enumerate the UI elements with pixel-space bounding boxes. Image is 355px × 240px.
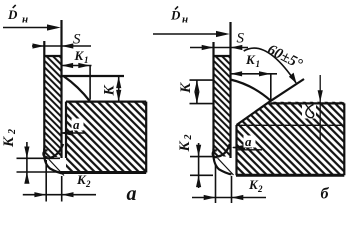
svg-text:D: D: [170, 8, 181, 23]
svg-text:2: 2: [7, 129, 18, 135]
svg-text:a: a: [245, 134, 252, 149]
svg-text:1: 1: [84, 55, 89, 65]
svg-text:D: D: [7, 7, 18, 22]
svg-text:б: б: [321, 186, 330, 203]
svg-text:K: K: [178, 82, 194, 94]
svg-text:K: K: [102, 85, 118, 97]
svg-text:K: K: [245, 52, 256, 67]
svg-text:S: S: [237, 31, 245, 47]
svg-text:н: н: [182, 14, 188, 26]
svg-text:K: K: [74, 48, 85, 63]
svg-text:1: 1: [256, 59, 261, 69]
svg-text:2: 2: [85, 179, 91, 189]
svg-text:2: 2: [257, 184, 263, 194]
svg-text:2: 2: [183, 135, 194, 141]
svg-text:н: н: [22, 14, 28, 26]
svg-text:K: K: [1, 136, 17, 148]
svg-text:K: K: [177, 141, 193, 153]
svg-text:S: S: [73, 32, 81, 48]
svg-text:a: a: [73, 117, 80, 132]
svg-text:a: a: [127, 183, 137, 205]
